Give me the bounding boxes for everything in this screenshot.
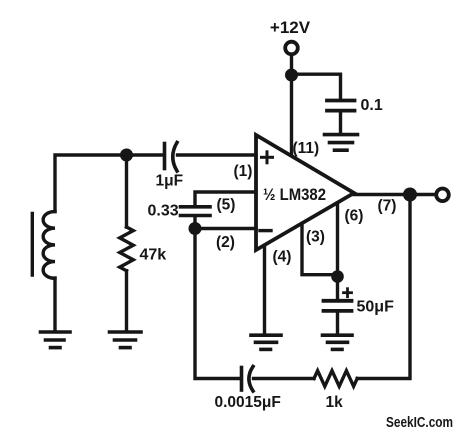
- wire node to 50uF: [336, 277, 339, 299]
- svg-text:(6): (6): [345, 208, 364, 225]
- wire antenna coil up and across to 1uF: [55, 155, 164, 212]
- node supply junction: [285, 69, 298, 82]
- wire 0.33 to feedback node: [193, 217, 196, 229]
- svg-text:1μF: 1μF: [156, 173, 184, 190]
- wire feedback node to pin 2: [195, 227, 256, 230]
- ground pin 4: [251, 335, 281, 349]
- wire bypass capacitor to ground: [339, 112, 342, 133]
- wire pin 3 to bootstrap node: [302, 224, 334, 275]
- svg-text:(1): (1): [234, 163, 253, 180]
- wire pin 5 to 0.33: [195, 192, 256, 205]
- svg-text:(11): (11): [293, 140, 320, 157]
- terminal +12V: [285, 42, 298, 55]
- wire 1k up to output node: [357, 195, 410, 379]
- ground bypass: [325, 135, 358, 151]
- wire 1uF to pin 1: [178, 153, 257, 156]
- ground 47k: [110, 332, 142, 348]
- ground antenna coil: [41, 332, 71, 348]
- op-amp U1 half LM382: [256, 135, 354, 250]
- node output junction: [403, 188, 417, 202]
- wire input junction down to 47k: [125, 155, 128, 227]
- terminal output: [436, 189, 449, 202]
- capacitor C1 0.1: [327, 101, 355, 111]
- op-amp inverting − mark: [260, 229, 271, 232]
- wire output pin 7: [354, 193, 435, 196]
- ground 50uF: [323, 335, 353, 349]
- polarity plus mark 50uF: [344, 289, 352, 297]
- svg-text:0.0015μF: 0.0015μF: [215, 394, 281, 411]
- capacitor C3 0.33: [181, 207, 211, 216]
- capacitor C2 1uF: [165, 143, 178, 172]
- svg-text:(4): (4): [273, 249, 292, 266]
- wire 47k to ground: [125, 271, 128, 330]
- svg-text:50μF: 50μF: [357, 299, 395, 316]
- op-amp noninverting + mark: [262, 152, 273, 163]
- svg-text:1k: 1k: [326, 394, 344, 411]
- wire pin 4 to ground: [263, 246, 266, 334]
- svg-text:(7): (7): [378, 198, 397, 215]
- svg-text:(3): (3): [306, 229, 325, 246]
- node input junction: [120, 149, 133, 162]
- wire feedback loop left/bottom: [195, 229, 240, 379]
- svg-text:+12V: +12V: [270, 18, 311, 37]
- svg-text:SeekIC.com: SeekIC.com: [386, 415, 453, 431]
- svg-text:(5): (5): [217, 197, 236, 214]
- node bootstrap junction: [331, 270, 344, 283]
- resistor R2 1k: [314, 371, 357, 387]
- capacitor C4 0.0015uF: [242, 367, 254, 392]
- node feedback junction: [189, 222, 202, 235]
- svg-text:½ LM382: ½ LM382: [263, 186, 326, 204]
- svg-text:0.33: 0.33: [148, 203, 179, 220]
- svg-text:0.1: 0.1: [361, 97, 383, 114]
- wire 0.0015uF to 1k: [254, 377, 315, 380]
- wire 50uF to ground: [336, 313, 339, 334]
- resistor R1 47k: [120, 227, 134, 271]
- svg-text:47k: 47k: [140, 247, 167, 264]
- wire +12V rail down to op-amp pin 11: [290, 55, 293, 157]
- wire coil to ground: [53, 278, 56, 330]
- svg-text:(2): (2): [216, 234, 235, 251]
- wire pin 6 to bootstrap node: [336, 203, 339, 276]
- inductor L1 coil: [43, 212, 55, 279]
- inductor core bar: [31, 214, 34, 276]
- capacitor C5 50uF: [324, 301, 352, 311]
- wire supply junction to bypass capacitor: [292, 74, 341, 98]
